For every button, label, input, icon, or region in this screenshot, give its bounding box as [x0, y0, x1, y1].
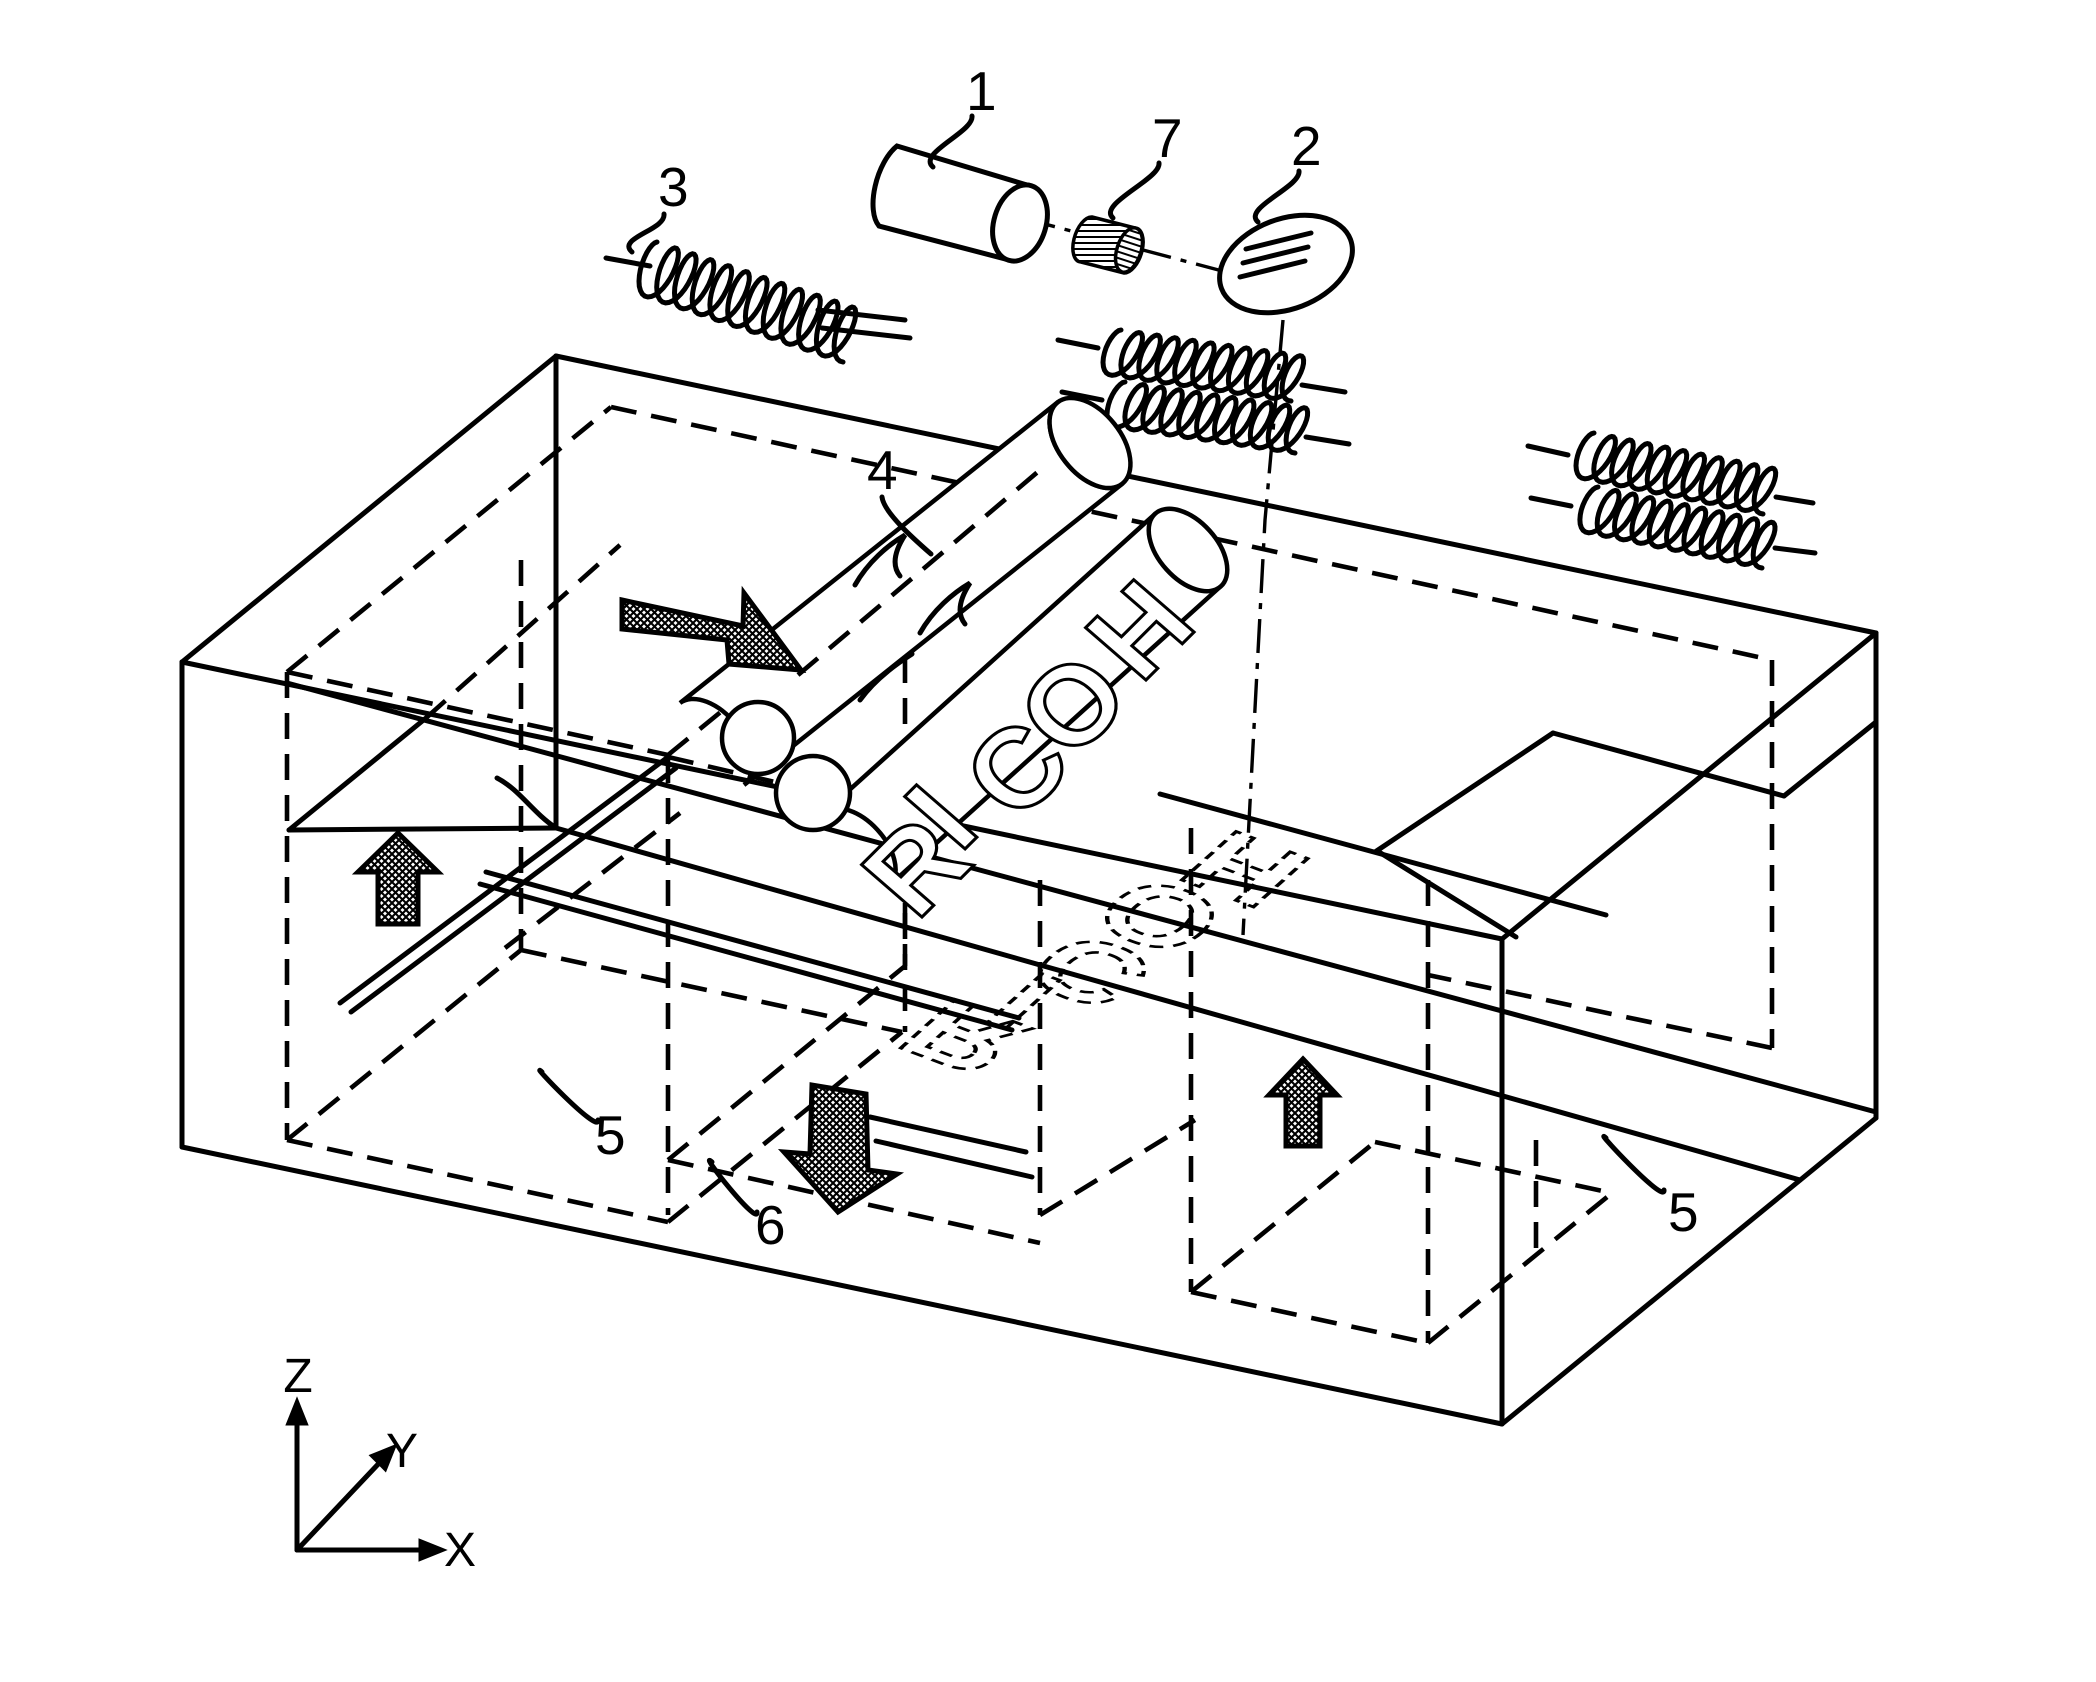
interior vertical edge under apex	[554, 356, 559, 828]
right coils	[1528, 446, 1568, 455]
rollers 4	[680, 383, 1242, 884]
right step (raised platform)	[1160, 794, 1606, 915]
svg-text:1: 1	[966, 60, 997, 122]
left platform side edge (hidden part)	[426, 545, 620, 718]
svg-text:Y: Y	[386, 1425, 418, 1478]
down arrow center	[784, 1085, 897, 1212]
left pocket 5 hidden edges	[287, 672, 668, 755]
web wrap squiggles	[855, 535, 905, 585]
left platform front edge	[289, 828, 556, 830]
pocket floor edges	[870, 1117, 1026, 1152]
hidden web edge on roller (dashed)	[798, 470, 1040, 675]
feed arrow (right)	[622, 593, 801, 670]
left platform side edge (visible part)	[289, 718, 426, 830]
svg-text:6: 6	[755, 1194, 786, 1256]
slot rim lines (u direction)	[486, 872, 1019, 1018]
optical axis (dash-dot)	[1022, 218, 1230, 273]
svg-text:X: X	[444, 1524, 476, 1577]
laser rod 1	[873, 146, 1056, 268]
hidden slot back rim	[505, 813, 680, 948]
long interior rim line c	[556, 828, 1800, 1180]
svg-text:Z: Z	[283, 1350, 312, 1403]
svg-text:4: 4	[867, 439, 898, 501]
web curve	[497, 778, 556, 828]
up arrow right	[1269, 1059, 1337, 1146]
condensing lens 7	[1073, 217, 1148, 276]
slot rim lines (v direction)	[340, 757, 668, 1003]
coordinate axes	[295, 1418, 300, 1550]
right pocket 5 hidden edges	[1189, 828, 1194, 1292]
coil 3 (top left)	[606, 258, 650, 266]
svg-text:5: 5	[1668, 1181, 1699, 1243]
mirror 2	[1205, 197, 1366, 330]
glass block outer box	[182, 356, 556, 662]
long interior rim line b	[287, 683, 1876, 1112]
hidden inner wall edges (dashed)	[287, 407, 611, 672]
svg-text:2: 2	[1291, 115, 1322, 177]
up arrow left	[358, 833, 438, 924]
hidden lip edge behind rollers	[668, 757, 895, 810]
svg-text:7: 7	[1152, 107, 1183, 169]
svg-text:5: 5	[595, 1104, 626, 1166]
center coils	[1058, 340, 1098, 348]
svg-text:3: 3	[658, 156, 689, 218]
central pocket 6 hidden edges	[666, 757, 671, 1215]
